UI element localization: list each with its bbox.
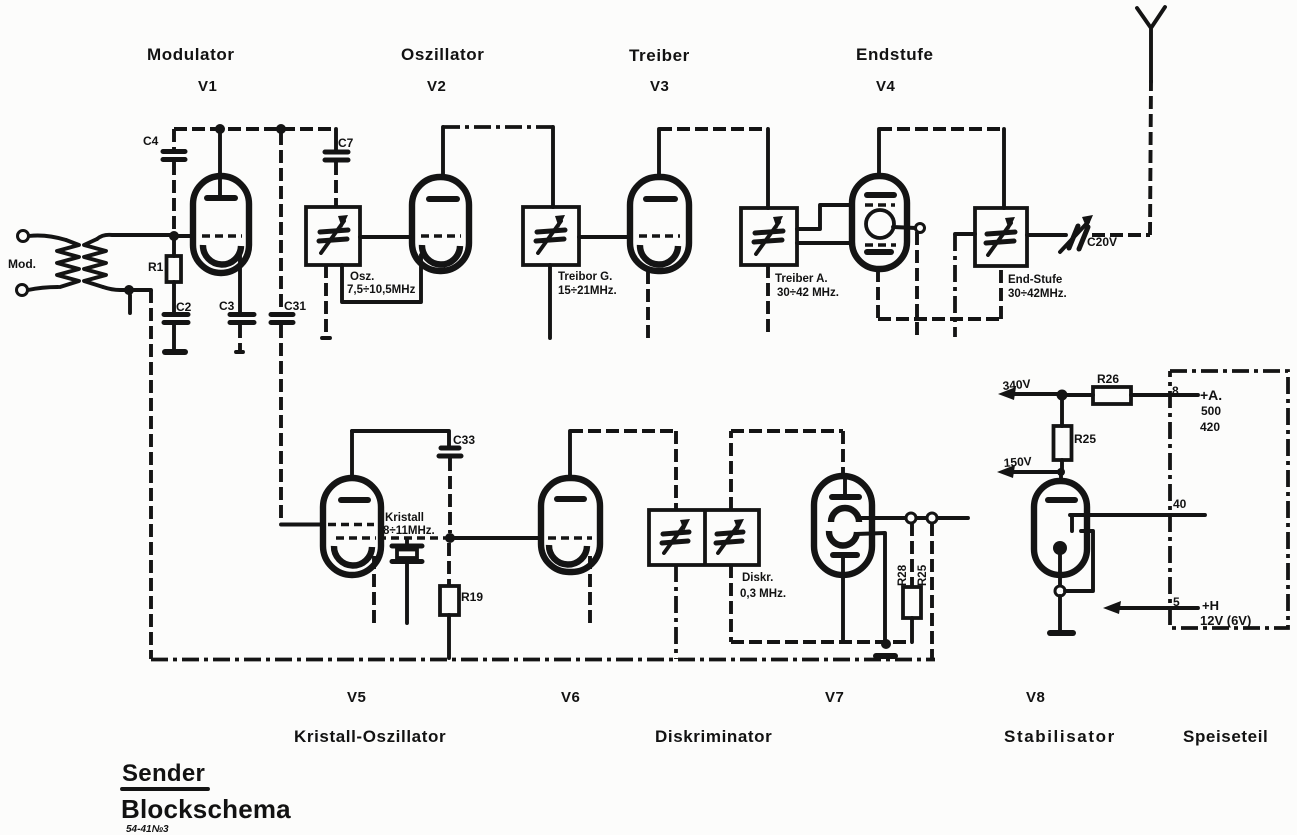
svg-text:Stabilisator: Stabilisator	[1004, 727, 1116, 746]
svg-text:C3: C3	[219, 299, 235, 313]
svg-text:R1: R1	[148, 260, 164, 274]
svg-text:C4: C4	[143, 134, 159, 148]
svg-text:End-Stufe: End-Stufe	[1008, 274, 1062, 286]
svg-text:Sender: Sender	[122, 760, 205, 787]
svg-text:V8: V8	[1026, 689, 1045, 706]
svg-text:V4: V4	[876, 78, 896, 95]
svg-text:V7: V7	[825, 689, 844, 706]
svg-text:+A.: +A.	[1200, 387, 1222, 403]
svg-text:V2: V2	[427, 78, 446, 95]
svg-text:Kristall: Kristall	[385, 512, 424, 524]
svg-text:Osz.: Osz.	[350, 271, 374, 283]
svg-text:40: 40	[1173, 497, 1187, 511]
svg-text:C33: C33	[453, 433, 475, 447]
svg-text:Mod.: Mod.	[8, 257, 36, 271]
svg-text:8: 8	[1172, 384, 1179, 398]
svg-text:R25: R25	[1074, 432, 1096, 446]
svg-text:30÷42 MHz.: 30÷42 MHz.	[777, 287, 839, 299]
svg-text:+H: +H	[1202, 598, 1219, 613]
svg-text:7,5÷10,5MHz: 7,5÷10,5MHz	[347, 284, 416, 296]
svg-text:Speiseteil: Speiseteil	[1183, 727, 1268, 746]
svg-text:Blockschema: Blockschema	[121, 794, 291, 824]
svg-text:15÷21MHz.: 15÷21MHz.	[558, 285, 617, 297]
svg-text:R26: R26	[1097, 372, 1119, 386]
svg-text:C31: C31	[284, 299, 306, 313]
svg-text:Diskr.: Diskr.	[742, 572, 773, 584]
svg-text:R19: R19	[461, 590, 483, 604]
svg-text:54-41№3: 54-41№3	[126, 824, 169, 835]
svg-text:V5: V5	[347, 689, 366, 706]
svg-text:V3: V3	[650, 78, 669, 95]
svg-text:Treiber A.: Treiber A.	[775, 273, 828, 285]
svg-text:Treiber: Treiber	[629, 46, 690, 65]
svg-text:30÷42MHz.: 30÷42MHz.	[1008, 288, 1067, 300]
svg-text:Oszillator: Oszillator	[401, 45, 484, 64]
svg-text:420: 420	[1200, 420, 1220, 434]
svg-text:C2: C2	[176, 300, 192, 314]
svg-text:V6: V6	[561, 689, 580, 706]
svg-text:Modulator: Modulator	[147, 45, 235, 64]
svg-text:R28: R28	[897, 564, 909, 586]
svg-text:150V: 150V	[1003, 454, 1032, 470]
svg-text:0,3 MHz.: 0,3 MHz.	[740, 588, 786, 600]
svg-text:Treibor G.: Treibor G.	[558, 271, 612, 283]
svg-text:R25: R25	[917, 564, 929, 586]
svg-text:V1: V1	[198, 78, 217, 95]
svg-text:C7: C7	[338, 136, 354, 150]
svg-text:Endstufe: Endstufe	[856, 45, 934, 64]
svg-text:8÷11MHz.: 8÷11MHz.	[383, 525, 435, 537]
svg-text:340V: 340V	[1002, 377, 1031, 393]
svg-text:Kristall-Oszillator: Kristall-Oszillator	[294, 727, 446, 746]
svg-text:Diskriminator: Diskriminator	[655, 727, 772, 746]
svg-text:C20V: C20V	[1087, 235, 1117, 249]
svg-text:12V (6V): 12V (6V)	[1200, 613, 1251, 628]
svg-text:500: 500	[1201, 404, 1221, 418]
